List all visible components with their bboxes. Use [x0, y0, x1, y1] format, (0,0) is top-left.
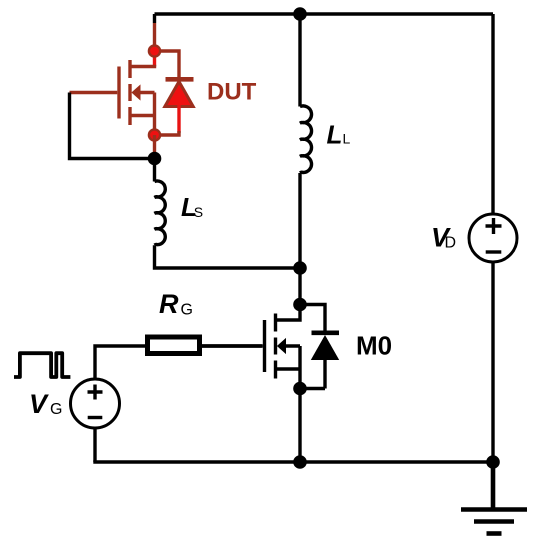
wire VG bottom riser — [93, 428, 96, 462]
DUT gate lead — [70, 91, 118, 94]
source VG — [71, 379, 120, 428]
node DUT source — [149, 129, 160, 140]
wire DUT drain top stub (black) — [153, 14, 156, 23]
M0 body arrow — [277, 338, 286, 354]
wire middle branch upper — [298, 14, 301, 107]
resistor RG — [148, 337, 200, 354]
diode M0 body diode — [300, 305, 339, 389]
pulse waveform symbol — [14, 353, 70, 377]
DUT source lead — [130, 114, 155, 117]
wire DUT drain stub below dot (bright red) — [153, 51, 156, 67]
wire DUT drain (dark red) — [153, 23, 156, 51]
DUT channel segment middle — [128, 84, 131, 101]
wire RG to M0 gate — [200, 344, 262, 347]
inductor LS — [155, 181, 166, 245]
DUT channel segment top — [128, 60, 131, 78]
wire LS to middle node — [155, 245, 301, 268]
svg-text:M0: M0 — [356, 331, 392, 361]
wire LL to M0 drain — [298, 173, 301, 305]
svg-text:G: G — [181, 302, 193, 319]
wire node to LS — [153, 159, 156, 182]
svg-text:S: S — [194, 204, 203, 220]
node bottom middle junction — [293, 455, 307, 469]
svg-text:L: L — [327, 120, 343, 150]
DUT drain lead — [130, 65, 156, 68]
wire DUT gate-source short — [70, 93, 151, 159]
wire bottom rail — [93, 460, 493, 463]
M0 channel segment top — [274, 314, 277, 332]
wire right branch lower — [491, 262, 494, 462]
M0 channel segment middle — [274, 338, 277, 355]
ground — [461, 462, 527, 534]
node M0 source — [293, 382, 307, 396]
DUT gate bar — [117, 67, 120, 119]
M0 gate bar — [263, 320, 266, 372]
M0 body line — [285, 346, 300, 389]
svg-text:V: V — [29, 389, 49, 419]
M0 source lead — [276, 367, 301, 370]
svg-text:L: L — [343, 131, 351, 147]
M0 channel segment bottom — [274, 361, 277, 379]
wire top rail — [155, 12, 494, 15]
inductor LL — [300, 106, 312, 173]
M0 gate lead — [200, 344, 263, 347]
svg-text:DUT: DUT — [207, 78, 257, 105]
transistor M0 (MOSFET) — [200, 305, 301, 389]
diode DUT body diode — [155, 51, 194, 135]
svg-text:D: D — [445, 235, 457, 252]
DUT channel segment bottom — [128, 107, 131, 125]
node DUT source junction — [148, 152, 162, 166]
svg-text:R: R — [159, 289, 179, 319]
transistor DUT (red MOSFET) — [70, 60, 157, 135]
wire M0 source to bottom rail — [298, 389, 301, 463]
node top junction — [293, 7, 307, 21]
node bottom right junction — [486, 455, 500, 469]
source VD — [469, 214, 517, 262]
wire DUT source to node — [153, 135, 156, 159]
wire VG top riser — [95, 346, 145, 379]
wire right branch upper — [491, 14, 494, 214]
node DUT drain — [149, 45, 160, 56]
node switch node — [293, 261, 307, 275]
DUT body arrow — [131, 84, 140, 100]
DUT body line — [140, 93, 155, 136]
node M0 drain — [293, 298, 307, 312]
M0 drain lead — [276, 305, 301, 321]
svg-text:G: G — [50, 401, 62, 418]
